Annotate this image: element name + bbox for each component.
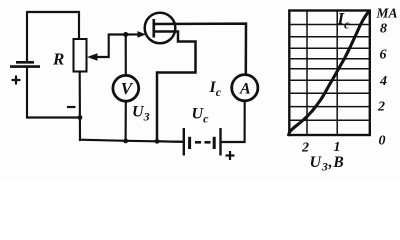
svg-text:МА: МА (376, 6, 398, 21)
svg-text:R: R (52, 50, 64, 69)
svg-text:Ic: Ic (209, 79, 222, 99)
svg-text:2: 2 (301, 141, 309, 156)
svg-text:V: V (121, 79, 134, 98)
svg-text:U3,В: U3,В (310, 154, 345, 174)
svg-text:1: 1 (334, 140, 341, 155)
svg-text:A: A (239, 81, 251, 98)
svg-text:U3: U3 (132, 104, 150, 124)
svg-text:Uc: Uc (192, 106, 210, 126)
svg-text:6: 6 (380, 48, 387, 63)
svg-text:2: 2 (377, 100, 385, 115)
svg-text:4: 4 (379, 74, 387, 89)
svg-text:8: 8 (380, 22, 387, 37)
svg-text:0: 0 (379, 134, 386, 149)
svg-text:Ic: Ic (337, 9, 351, 32)
